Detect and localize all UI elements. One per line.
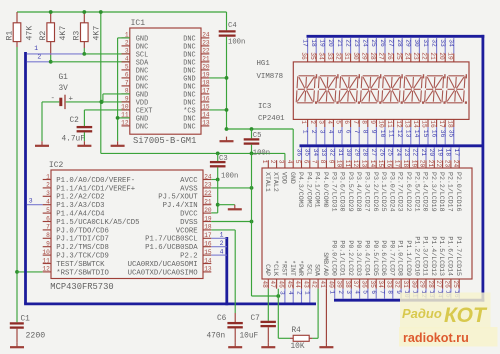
- svg-text:16: 16: [385, 160, 392, 168]
- svg-text:30: 30: [345, 149, 352, 157]
- IC3 pin 34 P0.6/LCD6: [377, 240, 387, 288]
- svg-text:P3.0/LCD24: P3.0/LCD24: [388, 172, 395, 212]
- watermark radiokot.ru: [399, 327, 498, 347]
- display top pin 32 wire net 21: [335, 38, 343, 62]
- capacitor C6: [207, 313, 243, 341]
- svg-text:32: 32: [329, 149, 336, 157]
- svg-text:21: 21: [420, 149, 427, 157]
- svg-text:7: 7: [311, 160, 318, 164]
- display bottom pin 1 wire net 1: [300, 119, 308, 144]
- display top pin 29 wire net 24: [360, 38, 368, 62]
- IC3 pin 15 P3.1/LCD25: [377, 160, 387, 212]
- node CLK gnd junction: [276, 294, 280, 298]
- svg-text:9: 9: [46, 241, 50, 248]
- display bottom pin 8 wire net 8: [360, 119, 368, 144]
- IC2 pin 6 P1.5/UCA0CLK/A5/CD5: [43, 215, 140, 227]
- IC3 pin 28 P1.4/LCD12: [427, 236, 437, 288]
- svg-text:P3.4/LCD28: P3.4/LCD28: [355, 172, 362, 212]
- svg-text:23: 23: [403, 149, 410, 157]
- IC2 pin 4 P1.3/A3/CD3: [43, 199, 105, 211]
- node SCL R3 junction: [82, 52, 86, 56]
- svg-text:DNC: DNC: [183, 91, 195, 99]
- display HG1 VIM878 box: [293, 62, 469, 120]
- svg-text:DVSS: DVSS: [180, 219, 198, 227]
- display top pin 30 wire net 23: [352, 38, 360, 62]
- svg-text:13: 13: [204, 266, 212, 273]
- IC2 pin 24 AVCC: [180, 173, 212, 185]
- display top pin 34 wire net 19: [317, 38, 325, 62]
- svg-text:P1.6/UCB0SDA: P1.6/UCB0SDA: [145, 244, 198, 252]
- display top pin 22 wire net 31: [421, 38, 429, 62]
- IC1 pin 20 DNC: [183, 64, 210, 76]
- svg-text:1: 1: [300, 120, 307, 124]
- svg-text:22: 22: [412, 149, 419, 157]
- svg-text:*RST/SBWTDIO: *RST/SBWTDIO: [56, 269, 109, 277]
- display bottom pin 18 wire net 35: [446, 119, 454, 144]
- svg-text:GND: GND: [136, 115, 148, 123]
- svg-text:DNC: DNC: [183, 115, 195, 123]
- display digit 6: [403, 74, 424, 104]
- ground C2: [77, 141, 91, 146]
- svg-text:34: 34: [377, 280, 384, 288]
- IC3 pin 25 P1.7/LCD15: [452, 236, 462, 288]
- svg-text:10: 10: [336, 160, 343, 168]
- IC3 bottom wire pin 37 net 4: [353, 289, 360, 299]
- wire C3 to IC2 AVCC: [217, 167, 219, 179]
- svg-text:15: 15: [204, 249, 212, 256]
- svg-text:28: 28: [396, 39, 403, 47]
- svg-text:3: 3: [29, 197, 33, 204]
- display top pin 31 wire net 22: [343, 38, 351, 62]
- svg-text:P3.2/LCD26: P3.2/LCD26: [372, 172, 379, 212]
- IC1 pin 3 SCL: [122, 48, 149, 60]
- IC3 top wire net 19: [436, 147, 443, 160]
- IC3 pin 30 P1.2/LCD10: [410, 236, 420, 288]
- svg-text:1: 1: [301, 130, 308, 134]
- svg-text:4K7: 4K7: [59, 26, 68, 41]
- IC3 pin 26 P1.6/LCD14: [444, 236, 454, 288]
- wire IC3 CLK stub: [277, 289, 279, 296]
- svg-text:19: 19: [204, 215, 212, 222]
- IC2 pin 17 P1.7/UCB0SCL: [145, 232, 212, 244]
- svg-text:P1.3/LCD11: P1.3/LCD11: [422, 236, 429, 276]
- IC3 pin 35 P0.5/LCD5: [369, 240, 379, 288]
- svg-text:UCA0RXD/UCA0SOMI: UCA0RXD/UCA0SOMI: [128, 261, 198, 269]
- svg-text:35: 35: [304, 149, 311, 157]
- wire C2 to ground: [83, 132, 85, 141]
- IC3 top wire net 31: [337, 147, 344, 160]
- svg-text:31: 31: [343, 52, 350, 60]
- svg-text:4.7uF: 4.7uF: [62, 136, 86, 144]
- IC3 pin 16 P3.0/LCD24: [385, 160, 395, 212]
- svg-text:11: 11: [344, 160, 351, 168]
- IC3 bottom wire net 3: [279, 289, 286, 303]
- IC1 pin 7 DNC: [122, 80, 149, 92]
- svg-text:24: 24: [362, 39, 369, 47]
- svg-text:31: 31: [402, 280, 409, 288]
- display bottom pin 13 wire net 13: [403, 119, 411, 144]
- battery G1 labels: [59, 74, 69, 93]
- svg-text:14: 14: [202, 112, 210, 119]
- svg-text:24: 24: [403, 52, 410, 60]
- display digit 2: [318, 74, 339, 104]
- IC2 pin 18 VCORE: [176, 224, 212, 236]
- node battery VCC junction: [99, 100, 103, 104]
- ground C6: [228, 343, 242, 348]
- svg-text:39: 39: [336, 280, 343, 288]
- svg-text:4: 4: [287, 291, 294, 295]
- svg-text:35: 35: [448, 130, 455, 138]
- wire IC3 SDA stub green: [317, 288, 319, 290]
- svg-text:2200: 2200: [26, 332, 46, 341]
- svg-text:IC3: IC3: [258, 103, 271, 111]
- svg-text:31: 31: [422, 39, 429, 47]
- display top pin 33 wire net 20: [326, 38, 334, 62]
- display top pin 36 wire net 17: [300, 38, 308, 62]
- svg-text:34: 34: [317, 52, 324, 60]
- svg-text:HG1: HG1: [257, 60, 271, 68]
- svg-text:6: 6: [343, 120, 350, 124]
- wire IC2 AVSS: [211, 187, 251, 189]
- svg-text:27: 27: [435, 280, 442, 288]
- IC3 top wire net 17: [453, 147, 460, 160]
- IC3 pin 39 P0.1/LCD1: [336, 240, 346, 288]
- svg-text:*INT: *INT: [289, 260, 296, 276]
- svg-text:40: 40: [327, 280, 334, 288]
- svg-text:16: 16: [202, 96, 210, 103]
- svg-text:DNC: DNC: [136, 43, 148, 51]
- svg-text:26: 26: [379, 39, 386, 47]
- svg-text:*PWR: *PWR: [297, 260, 304, 276]
- svg-text:VCORE: VCORE: [176, 227, 198, 235]
- display bottom pin 5 wire net 5: [335, 119, 343, 144]
- svg-text:22: 22: [421, 52, 428, 60]
- svg-text:G1: G1: [59, 74, 69, 82]
- svg-text:19: 19: [410, 160, 417, 168]
- IC3 pin 45 *INT: [286, 260, 296, 289]
- svg-text:VDD: VDD: [281, 172, 288, 184]
- wire SCL to IC1 pin 3: [84, 53, 130, 55]
- display top pin 24 wire net 29: [403, 38, 411, 62]
- svg-text:3V: 3V: [59, 85, 69, 93]
- svg-text:GND: GND: [136, 35, 148, 43]
- IC3 pin 24 P2.0/LCD16: [452, 160, 462, 212]
- node R2 top: [49, 10, 53, 14]
- wire R3 to SCL line: [83, 48, 85, 54]
- svg-text:8: 8: [387, 290, 394, 294]
- IC1 pin 18 DNC: [183, 80, 210, 92]
- capacitor C4: [219, 12, 246, 47]
- svg-text:P1.7/LCD15: P1.7/LCD15: [455, 236, 462, 276]
- svg-text:DNC: DNC: [183, 123, 195, 131]
- svg-text:5: 5: [294, 160, 301, 164]
- capacitor C3: [210, 153, 238, 180]
- display bottom pin 10 wire net 10: [378, 119, 386, 144]
- svg-text:8: 8: [319, 160, 326, 164]
- svg-text:КОТ: КОТ: [444, 304, 488, 327]
- svg-text:6: 6: [344, 130, 351, 134]
- IC3 top wire net 36: [295, 147, 302, 160]
- svg-text:6: 6: [370, 290, 377, 294]
- op-amp U2 IC2 MSP430 box: [51, 170, 203, 279]
- watermark Radio Kot: [400, 293, 491, 329]
- svg-text:25: 25: [452, 280, 459, 288]
- svg-text:24: 24: [202, 32, 210, 39]
- svg-text:3: 3: [279, 291, 286, 295]
- svg-text:TEST/SBWTCK: TEST/SBWTCK: [56, 261, 105, 269]
- svg-text:12: 12: [395, 120, 402, 128]
- svg-text:DNC: DNC: [136, 123, 148, 131]
- svg-text:P2.1/LCD17: P2.1/LCD17: [447, 172, 454, 212]
- svg-text:P1.4/LCD12: P1.4/LCD12: [430, 236, 437, 276]
- net 3 bus entry to IC2 pin 4: [27, 204, 43, 206]
- IC3 pin 7 P4.1/COM1: [311, 160, 321, 208]
- svg-text:23: 23: [202, 40, 210, 47]
- svg-text:17: 17: [202, 88, 210, 95]
- display bottom pin 7 wire net 7: [352, 119, 360, 144]
- net 1 bus entry from IC2: [211, 232, 227, 239]
- svg-text:R3: R3: [73, 31, 82, 41]
- svg-text:DNC: DNC: [183, 99, 195, 107]
- svg-text:7: 7: [353, 130, 360, 134]
- IC3 bottom wire net 2: [295, 289, 302, 303]
- svg-text:9: 9: [327, 160, 334, 164]
- IC2 pin 2 P1.1/A1/CD1/VEREF+: [43, 182, 135, 194]
- svg-text:2: 2: [269, 160, 276, 164]
- svg-text:P1.2/LCD10: P1.2/LCD10: [413, 236, 420, 276]
- svg-text:28: 28: [369, 52, 376, 60]
- wire IC3 SMB/A0 to ground: [325, 289, 327, 343]
- svg-text:DNC: DNC: [136, 83, 148, 91]
- svg-text:20: 20: [204, 207, 212, 214]
- svg-text:C1: C1: [21, 316, 31, 324]
- wire R4 to IC3 SDA: [312, 289, 318, 339]
- svg-text:4: 4: [353, 290, 360, 294]
- display top pin 27 wire net 26: [378, 38, 386, 62]
- svg-text:38: 38: [344, 280, 351, 288]
- svg-text:2: 2: [46, 182, 50, 189]
- svg-text:CAP: CAP: [264, 264, 271, 276]
- svg-text:P4.1/COM1: P4.1/COM1: [314, 172, 321, 208]
- IC2 pin 12 *RST/SBWTDIO: [42, 266, 109, 278]
- bus bottom-left horizontal: [24, 302, 316, 305]
- IC3 pin 11 P3.5/LCD29: [344, 160, 354, 212]
- display digit 5: [382, 74, 403, 104]
- IC3 bottom wire pin 38 net 3: [345, 289, 352, 299]
- IC3 bottom wire pin 36 net 5: [362, 289, 369, 299]
- svg-text:8: 8: [46, 232, 50, 239]
- svg-text:30: 30: [352, 52, 359, 60]
- svg-text:7: 7: [352, 120, 359, 124]
- svg-text:36: 36: [295, 149, 302, 157]
- wire IC1 pin8: [103, 94, 130, 102]
- svg-text:P4.2/COM2: P4.2/COM2: [305, 172, 312, 208]
- IC3 top wire net 24: [395, 147, 402, 160]
- svg-text:32: 32: [335, 52, 342, 60]
- svg-text:P1.1/LCD9: P1.1/LCD9: [405, 240, 412, 276]
- svg-text:PJ.5/XOUT: PJ.5/XOUT: [158, 194, 198, 202]
- svg-text:19: 19: [319, 39, 326, 47]
- svg-text:XTAL2: XTAL2: [272, 172, 279, 192]
- IC1 pin 14 DNC: [183, 112, 210, 124]
- svg-text:27: 27: [378, 52, 385, 60]
- IC3 top wire net 21: [420, 147, 427, 160]
- IC3 bottom wire pin 31 net 10: [403, 289, 410, 299]
- node VDD C3 junction: [216, 152, 220, 156]
- node C5 top junction: [250, 127, 254, 131]
- svg-text:PJ.0/TDO/CD6: PJ.0/TDO/CD6: [56, 227, 109, 235]
- svg-text:SDA: SDA: [314, 264, 321, 276]
- display top pin 20 wire net 33: [438, 38, 446, 62]
- resistor R3: [73, 12, 102, 48]
- node pin15 junction: [225, 108, 229, 112]
- wire IC1 pin15 CS: [209, 109, 226, 111]
- display top pin 23 wire net 30: [412, 38, 420, 62]
- IC2 pin 22 PJ.5/XOUT: [158, 190, 212, 202]
- svg-text:18: 18: [445, 149, 452, 157]
- svg-text:C6: C6: [217, 315, 227, 323]
- IC3 pin 12 P3.4/LCD28: [352, 160, 362, 212]
- IC3 pin 29 P1.3/LCD11: [419, 236, 429, 288]
- svg-text:DVCC: DVCC: [180, 211, 198, 219]
- svg-text:4: 4: [125, 56, 129, 63]
- resistor R1: [6, 12, 35, 47]
- capacitor C5: [244, 129, 270, 158]
- svg-text:P2.7/LCD23: P2.7/LCD23: [397, 172, 404, 212]
- svg-text:36: 36: [361, 280, 368, 288]
- svg-text:33: 33: [439, 39, 446, 47]
- IC3 pin 44 *PWR: [294, 260, 304, 289]
- svg-text:42: 42: [311, 280, 318, 288]
- svg-text:21: 21: [336, 39, 343, 47]
- node R3 top: [82, 10, 86, 14]
- svg-text:47: 47: [269, 280, 276, 288]
- IC3 top wire net 22: [412, 147, 419, 160]
- svg-text:15: 15: [377, 160, 384, 168]
- svg-text:35: 35: [309, 52, 316, 60]
- display bottom pin 9 wire net 9: [369, 119, 377, 144]
- svg-text:5: 5: [336, 130, 343, 134]
- IC3 pin 48 CAP: [261, 264, 271, 289]
- wire C5 bottom: [251, 145, 253, 154]
- wire R2 to SDA line: [50, 55, 52, 62]
- svg-text:21: 21: [204, 199, 212, 206]
- op-amp U3 IC3 CP2401 box: [262, 168, 472, 279]
- IC3 pin 18 P2.6/LCD22: [402, 160, 412, 212]
- wire RST to IC2 pin 12: [17, 271, 43, 273]
- svg-text:*RST: *RST: [281, 260, 288, 276]
- svg-text:7: 7: [378, 290, 385, 294]
- IC1 pin 6 DNC: [122, 72, 149, 84]
- IC3 pin 37 P0.3/LCD3: [352, 240, 362, 288]
- svg-text:26: 26: [386, 52, 393, 60]
- IC3 bottom wire net 1: [304, 289, 311, 303]
- svg-text:28: 28: [427, 280, 434, 288]
- svg-text:24: 24: [204, 173, 212, 180]
- svg-text:100n: 100n: [253, 150, 270, 158]
- svg-text:21: 21: [429, 52, 436, 60]
- wire C7 to ground: [267, 327, 269, 342]
- display bottom pin 3 wire net 3: [317, 119, 325, 144]
- svg-text:14: 14: [204, 257, 212, 264]
- svg-text:470n: 470n: [207, 333, 226, 341]
- net 2 bus entry from IC2: [211, 240, 227, 247]
- svg-text:36: 36: [300, 52, 307, 60]
- svg-text:29: 29: [419, 280, 426, 288]
- svg-text:31: 31: [337, 149, 344, 157]
- ground C1: [10, 343, 24, 348]
- svg-text:16: 16: [430, 130, 437, 138]
- ground C7: [261, 343, 275, 348]
- IC3 pin 6 P4.2/COM2: [302, 160, 312, 208]
- svg-text:P1.0/LCD8: P1.0/LCD8: [397, 240, 404, 276]
- IC2 pin 10 PJ.3/TCK/CD9: [42, 249, 108, 261]
- svg-text:DNC: DNC: [136, 75, 148, 83]
- svg-text:19: 19: [446, 52, 453, 60]
- svg-text:41: 41: [319, 280, 326, 288]
- IC3 top wire net 20: [428, 147, 435, 160]
- IC1 pin 12 DNC: [121, 120, 148, 132]
- capacitor C1: [10, 316, 45, 341]
- svg-text:11: 11: [387, 130, 394, 138]
- svg-text:P4.3/COM3: P4.3/COM3: [297, 172, 304, 208]
- svg-text:C5: C5: [253, 132, 262, 140]
- wire IC2 VCORE to C6: [211, 230, 235, 313]
- svg-text:GND: GND: [183, 75, 195, 83]
- svg-text:32: 32: [430, 39, 437, 47]
- node AVSS junction: [250, 186, 254, 190]
- IC1 pin 21 DNC: [183, 56, 210, 68]
- svg-text:R2: R2: [39, 31, 48, 41]
- svg-text:19: 19: [202, 72, 210, 79]
- svg-text:100n: 100n: [221, 173, 238, 181]
- svg-text:23: 23: [412, 52, 419, 60]
- net 1 bus entry (SCL): [27, 53, 84, 55]
- svg-text:13: 13: [405, 130, 412, 138]
- svg-text:22: 22: [202, 48, 210, 55]
- wire IC3 CAP to C7: [267, 289, 269, 321]
- IC3 pin 38 P0.2/LCD2: [344, 240, 354, 288]
- bus left vertical: [24, 52, 27, 304]
- svg-text:10uF: 10uF: [240, 333, 259, 341]
- svg-text:25: 25: [370, 39, 377, 47]
- svg-text:P2.5/LCD21: P2.5/LCD21: [413, 172, 420, 212]
- node RST junction: [15, 270, 19, 274]
- wire IC2 DVSS: [211, 221, 251, 223]
- IC3 pin 14 P3.2/LCD26: [369, 160, 379, 212]
- svg-text:4: 4: [46, 199, 50, 206]
- svg-text:17: 17: [204, 232, 212, 239]
- svg-text:*CS: *CS: [183, 107, 195, 115]
- svg-text:P1.5/UCA0CLK/A5/CD5: P1.5/UCA0CLK/A5/CD5: [56, 219, 139, 227]
- svg-text:R4: R4: [292, 327, 302, 335]
- wire IC1 pin11 GND: [118, 117, 130, 119]
- svg-text:C7: C7: [251, 315, 261, 323]
- svg-text:8: 8: [362, 130, 369, 134]
- svg-text:P1.0/A0/CD0/VEREF-: P1.0/A0/CD0/VEREF-: [56, 177, 135, 185]
- IC3 bottom wire pin 28 net 13: [428, 289, 435, 299]
- svg-text:SCL: SCL: [136, 51, 148, 59]
- IC3 pin 40 P0.0/LCD0: [327, 240, 337, 288]
- svg-text:2: 2: [295, 291, 302, 295]
- svg-text:AVCC: AVCC: [180, 177, 198, 185]
- svg-text:12: 12: [121, 120, 129, 127]
- svg-text:1: 1: [46, 173, 50, 180]
- node pin19 junction: [225, 76, 229, 80]
- display bottom pin 12 wire net 12: [395, 119, 403, 144]
- IC3 bottom wire pin 39 net 2: [337, 289, 344, 299]
- svg-text:17: 17: [301, 39, 308, 47]
